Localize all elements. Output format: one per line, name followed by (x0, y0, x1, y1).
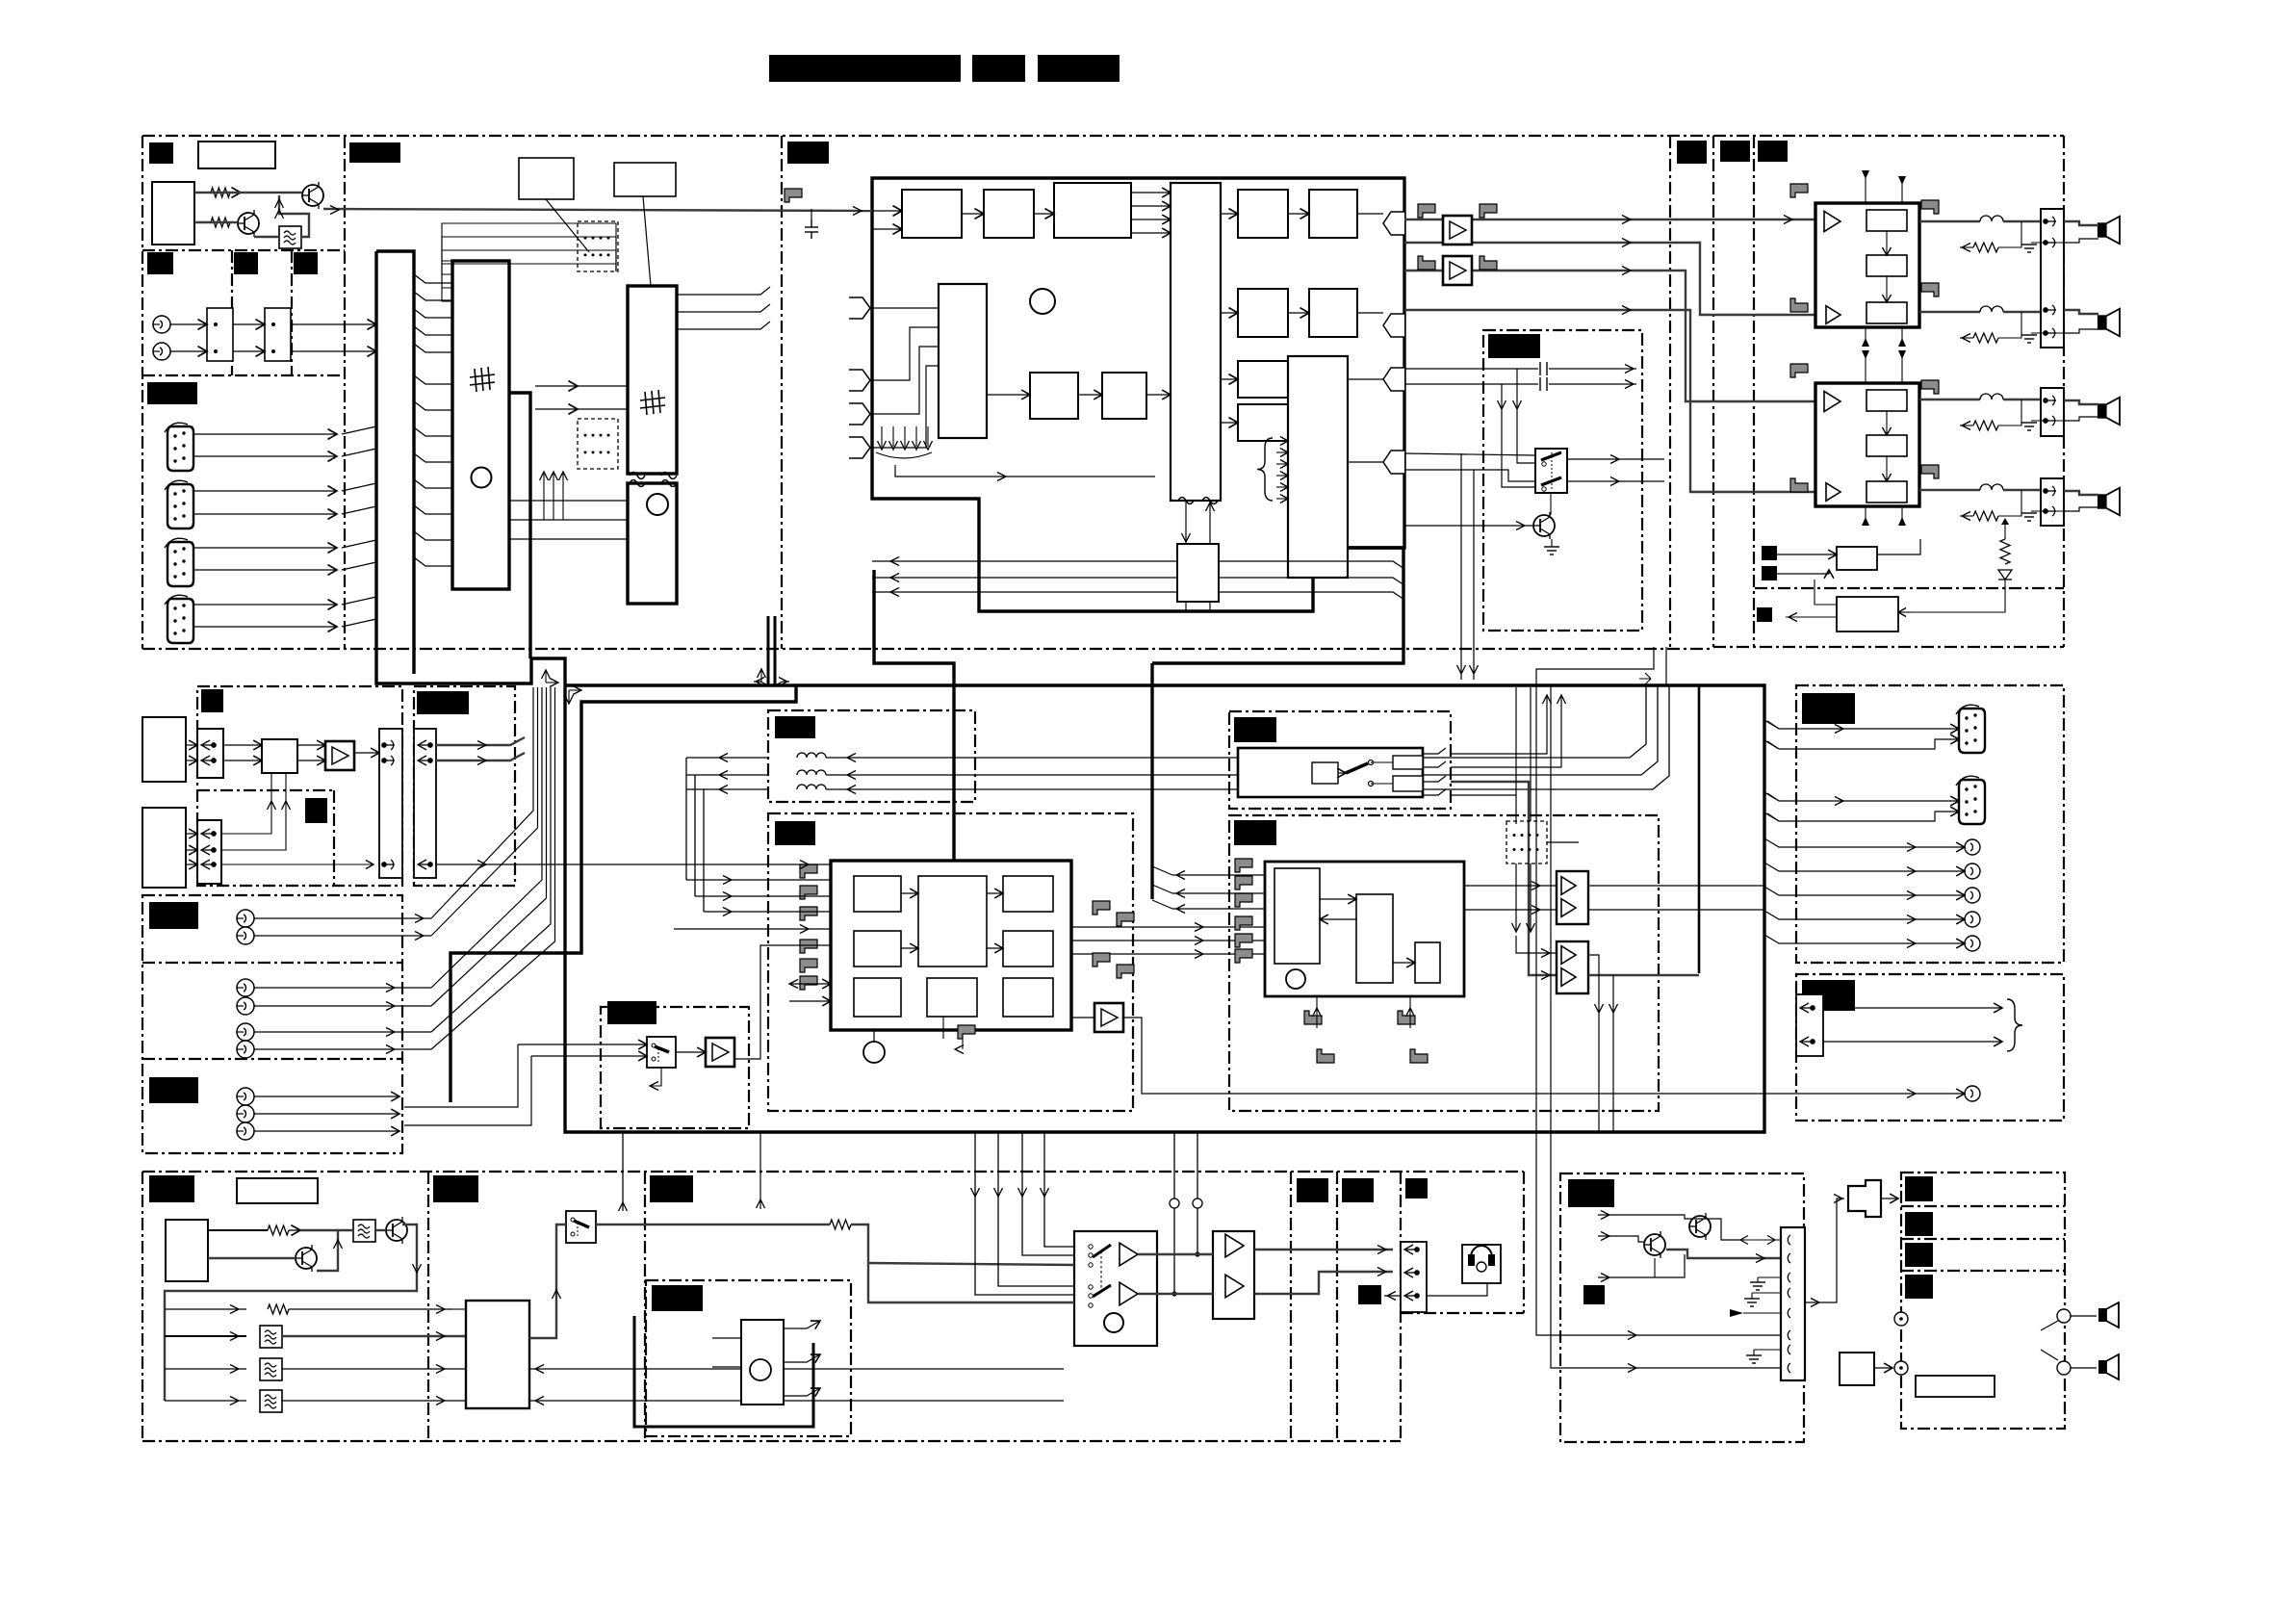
sys conn circle (1965, 1086, 1980, 1101)
FM IF IC block (628, 286, 677, 474)
digital box lower blocks (1030, 373, 1078, 419)
section box: power supply B (bottom mid) (1560, 1173, 1804, 1442)
muting switch outputs (1567, 458, 1664, 460)
wire tuner chain (194, 192, 302, 193)
label: mid-left 2 (417, 691, 469, 714)
label: tuner board (149, 142, 173, 164)
section border: top band outer (142, 135, 2064, 137)
res psu (268, 1225, 289, 1235)
out blocks row1 (1238, 190, 1288, 238)
wires row3/4 to tall (1287, 378, 1289, 380)
headphone feed pair down (1588, 955, 1599, 1132)
vol out wires (1071, 926, 1265, 928)
sys control block (466, 1301, 529, 1408)
selector IC inner blocks (1274, 868, 1320, 964)
MPX feed thick pair (768, 616, 775, 685)
tuner block (152, 182, 194, 245)
conn pins A (197, 729, 223, 778)
wires IC3 left entries (535, 385, 578, 387)
up arrows to dip box (543, 474, 545, 520)
pins A symbols (201, 740, 216, 750)
label: bottom mid (650, 1175, 693, 1202)
section box: record select lower (1229, 815, 1659, 1111)
amp1 to buffer (1138, 1253, 1213, 1255)
block row1 b (984, 190, 1034, 238)
xtal ref box 1 (519, 158, 574, 199)
label: mid-left 3 (305, 798, 327, 823)
sys conn wires (1823, 1007, 2002, 1009)
amp out to speakers (1919, 220, 1980, 222)
amp2 to buffer (1138, 1293, 1213, 1295)
section box: muting/source select (1483, 330, 1642, 631)
label: input board (147, 382, 197, 404)
down arrow cluster under mcu (881, 426, 883, 447)
AC wires (1881, 1198, 1898, 1199)
wire (230, 192, 241, 193)
label: ant 1 (147, 252, 173, 274)
phono input circles (237, 910, 254, 927)
psu B solid arrow (1730, 1309, 1743, 1317)
AC speakers (2098, 1302, 2119, 1328)
wires serial across (872, 560, 1177, 562)
record select outputs (1423, 748, 1446, 754)
label: muting box (1488, 334, 1540, 358)
muting transistor (1533, 512, 1555, 539)
hp main feeds (868, 1263, 1074, 1265)
serial interface block (1177, 544, 1219, 602)
label: rec out (1802, 693, 1855, 724)
label: mic label (652, 1285, 703, 1311)
balun block 1 (207, 308, 233, 361)
hp buffer box (1213, 1231, 1254, 1319)
power amp hybrid 2 (1815, 383, 1919, 506)
wires psu (300, 1229, 353, 1231)
hp amps (1120, 1243, 1138, 1266)
wire row1 (872, 210, 902, 212)
AC trans block (1840, 1353, 1874, 1385)
buffer outputs right (1588, 885, 1764, 887)
brace and arrows into tall block (1257, 438, 1273, 501)
mcu block left (939, 284, 987, 438)
psu B lines from power section (1536, 647, 1781, 1335)
label: phono 1 (149, 902, 198, 929)
dip dashed box 2 (578, 419, 618, 469)
mid blocks row2 (1238, 289, 1288, 337)
wires bus top loops (442, 223, 578, 261)
hp switches (1093, 1245, 1111, 1297)
out chevron row2 (1383, 314, 1404, 337)
DIN pins B tall (379, 729, 402, 878)
headphone select box (1074, 1231, 1157, 1346)
section box: system connector (lower right mid) (1796, 974, 2064, 1121)
serial down stubs (1185, 602, 1187, 611)
psu B transistors (1644, 1231, 1665, 1258)
gray flags right of vol IC (1093, 901, 1110, 915)
wires tape row (186, 744, 197, 746)
label: phono 2 (149, 1077, 198, 1103)
rear connector 4 (165, 595, 193, 643)
antenna input jack 1 (153, 316, 170, 333)
headphone icon (1462, 1245, 1501, 1283)
label: record select lower (1234, 820, 1276, 845)
AC plug (1848, 1180, 1881, 1217)
protection relay block (1837, 597, 1898, 632)
amp input buffer 2 (1443, 256, 1472, 285)
label: bottom mid-left (433, 1175, 478, 1202)
wire connector pair (193, 604, 337, 606)
tape loop bundle from dolby to left (686, 757, 768, 759)
power rails arrows (1865, 170, 1866, 203)
long ctrl wire (895, 465, 1155, 477)
out chevron row3 (1383, 368, 1404, 391)
pins B symbols (382, 740, 395, 750)
pre-out feed jogs (1764, 838, 1796, 847)
FM MPX circle (647, 494, 668, 515)
speaker-B tap verticals (1173, 1132, 1175, 1294)
label: psu B label (1568, 1179, 1614, 1207)
label: system conn (1802, 980, 1855, 1011)
psu rows (268, 1304, 289, 1314)
section box: tape monitor switch (601, 1007, 749, 1128)
amp M1 (325, 741, 354, 770)
section border: headphone jack sub-box (1400, 1172, 1402, 1441)
wire switch right (596, 1224, 830, 1225)
label: dolby box (775, 716, 815, 738)
mid blocks row4 (1238, 404, 1288, 441)
hp return wire (1427, 1283, 1487, 1296)
label: tuner ref box (198, 142, 275, 168)
speakers right (2098, 217, 2120, 245)
section box: mic amp (646, 1280, 851, 1436)
tape rec block 1 (142, 717, 186, 782)
dip dashed box 1 (578, 221, 618, 271)
wires serial up (1185, 501, 1187, 544)
selector IC left flags (1235, 859, 1252, 872)
balun pins (214, 322, 275, 353)
section border: power amp right edge (2063, 136, 2065, 647)
psu B header out to plug (1805, 1199, 1844, 1302)
speaker wires (2064, 221, 2098, 225)
rear connector 1 (165, 423, 193, 471)
tape sw gnd arrow (652, 1068, 661, 1086)
wires line-in diagonal bundle (431, 687, 533, 918)
rec out connector 2 (1956, 776, 1985, 824)
amp section bottom split arrows (1639, 673, 1651, 684)
section border: bottom dividers (427, 1172, 429, 1441)
label: ant 2 (234, 252, 258, 274)
transistor Q11 (296, 1245, 317, 1272)
label: mid-left 1 (201, 689, 223, 712)
gray flags left of vol IC (800, 864, 817, 878)
record switch block (1238, 748, 1423, 797)
tall input selector bus (376, 251, 531, 683)
capacitor to gnd (805, 219, 818, 239)
selector IC outputs to buffers (1464, 885, 1557, 887)
selector IC tally mark (470, 367, 495, 392)
digital board thick outline (872, 178, 1404, 611)
vol blocks grid r1 (854, 876, 901, 912)
chevron merges into rec section (1779, 728, 1796, 730)
label: front board (349, 142, 400, 163)
balun block 2 (265, 308, 291, 361)
out chevron row1 (1383, 212, 1404, 235)
AC ref rect (1916, 1376, 1995, 1397)
wires DIN out right (436, 737, 525, 745)
bidir wire (789, 983, 831, 985)
wires into tape monitor (518, 1044, 647, 1045)
vol blocks grid r3 (854, 978, 901, 1017)
section border: phono dividers (142, 962, 402, 964)
title bar 2 (972, 55, 1025, 82)
DSP right tall block (1288, 356, 1348, 578)
vol blocks grid r2 (854, 931, 901, 967)
thick leg from digital box to main box (874, 570, 954, 864)
label: bottom left (149, 1175, 194, 1202)
transistor Q10 (386, 1217, 407, 1244)
main out chevrons and lines to amps (1404, 219, 1815, 220)
hp circle (1104, 1313, 1123, 1332)
record switch inner (1312, 762, 1338, 784)
label: tape monitor (607, 1001, 656, 1024)
IC right-edge feed (510, 393, 530, 658)
wire connector pair (193, 490, 337, 492)
section border: FM/main divider (781, 136, 783, 649)
psu B wires (1598, 1215, 1712, 1219)
gray flag on fm line (785, 189, 802, 202)
rec out wires (1796, 728, 1959, 730)
power amp hybrid 1 (1815, 203, 1919, 327)
volume/dsp IC thick block (831, 861, 1071, 1030)
input chevrons into digital box (849, 297, 870, 319)
section box: AC power (bottom right) (1901, 1173, 2065, 1429)
psu B gnds (1750, 1282, 1765, 1290)
selector IC block (452, 261, 509, 589)
mcu circle (1030, 289, 1055, 314)
tape rec block 2 (142, 808, 186, 888)
out buffer box 2 (1557, 941, 1588, 993)
label: headphone small (1358, 1285, 1381, 1304)
resistor vert + diode (2000, 539, 2010, 564)
process square (262, 739, 297, 773)
wires row1c to DSP (1131, 192, 1171, 193)
vol arrows (901, 892, 918, 894)
resistor R2 (211, 218, 230, 227)
vol circle (863, 1042, 885, 1063)
psu B line down (759, 1132, 761, 1209)
selector IC gray flags bottom (1304, 1011, 1322, 1024)
section box: bottom band outer (142, 1171, 1524, 1173)
DIN pins C tall (414, 729, 436, 878)
section box: record select upper (1229, 711, 1451, 809)
label: ant 3 (294, 252, 318, 274)
muting port2 lines (1404, 453, 1535, 455)
section border: AC power dividers (1901, 1205, 2065, 1207)
label: headphone col labels (1297, 1178, 1328, 1202)
amp after vol (1094, 1003, 1123, 1032)
power switch (566, 1211, 596, 1243)
bus to IC stub wires (414, 274, 452, 283)
mic thick L (634, 1316, 813, 1427)
relay pass wires (1515, 864, 1517, 930)
AC speaker levers (2041, 1321, 2058, 1330)
muting line 2 with cap (1404, 383, 1538, 385)
transistor Q1 (238, 210, 259, 237)
tape monitor amp (706, 1038, 734, 1067)
label: psu B small (1583, 1285, 1605, 1304)
hp line circles (1170, 1199, 1202, 1208)
section box: DSP/volume control (768, 813, 1133, 1111)
section box: dolby NR (768, 710, 975, 802)
wire switch up to main board (622, 1132, 624, 1211)
section box: phono inputs (142, 895, 402, 1153)
wire long from amp buffer down (1142, 1030, 1627, 1094)
xtal ref box 2 (614, 163, 676, 196)
dolby inductors (797, 753, 826, 758)
muting gnd (1544, 547, 1559, 554)
speaker relay dotted box (1506, 821, 1547, 864)
out buffer box 1 (1557, 871, 1588, 924)
filter psu (353, 1220, 375, 1242)
feedback resistors (1973, 243, 1998, 252)
wire ref to IC (546, 199, 589, 252)
AC node circles (1894, 1309, 2071, 1375)
input wires to vol IC (768, 879, 831, 881)
IC break squiggles (630, 473, 645, 479)
sys conn block (1796, 994, 1823, 1056)
FM IF IC tally (640, 390, 665, 415)
rec out jacks circles (1965, 839, 1980, 855)
gray flags near buffers (1418, 204, 1435, 218)
selector IC monitor out to digital (1172, 874, 1265, 876)
switch riser (529, 1224, 566, 1338)
gray flags at power amps (1790, 184, 1808, 197)
inner board thick outline (450, 685, 796, 1102)
title bar 1 (769, 55, 961, 82)
wire FM out (323, 209, 872, 211)
filter FL1 (279, 226, 301, 248)
section box: rec out jacks (1796, 685, 2064, 963)
section box: tape/aux input (mid-left) (197, 686, 402, 886)
section border: power amp section left dividers (1669, 136, 1671, 647)
wire into ADC 2nd (872, 228, 902, 230)
section border: antenna input sub-dividers (231, 250, 233, 375)
label: power labels x3 (1677, 141, 1707, 164)
buffer outs to jack (1254, 1249, 1393, 1250)
muting taps down (1517, 369, 1535, 463)
block row1 c (1054, 183, 1131, 238)
wire from tape sw to vol (733, 945, 831, 1059)
muting line 1 with cap (1404, 368, 1538, 370)
rec out connector 1 (1956, 705, 1985, 753)
FM MPX IC block (628, 483, 677, 604)
label: AC labels x4 (1905, 1176, 1933, 1201)
antenna input jack 2 (153, 343, 170, 360)
transistor Q2 (302, 182, 323, 209)
wire ant (170, 323, 207, 325)
amp input buffer 1 (1443, 216, 1472, 245)
mid blocks row3 (1238, 361, 1288, 398)
psu B header (1781, 1227, 1805, 1380)
out chevron row4 (1383, 451, 1404, 474)
DSP core tall block (1171, 183, 1221, 501)
bus lines into hp select (975, 1132, 1074, 1295)
wire from protection left (1815, 580, 1837, 605)
muting verticals to relay (1460, 453, 1462, 680)
psu out down (165, 1224, 417, 1401)
wires IC3 top to right (677, 287, 770, 295)
mic out wires (784, 1321, 820, 1328)
psu B bidir (1740, 1236, 1775, 1245)
protect block (1837, 547, 1877, 570)
section border: protector sub-box (1755, 587, 2064, 589)
wire connector pair (193, 547, 337, 549)
selector IC circle (472, 468, 492, 488)
terminal pins (2044, 217, 2056, 226)
muting switch box (1535, 449, 1567, 493)
label: protector small squares (1762, 546, 1777, 560)
label: bottom ref box (237, 1178, 318, 1203)
label: main board (787, 142, 829, 164)
tape monitor switch (647, 1037, 676, 1068)
mic circle (750, 1359, 771, 1380)
psu block (166, 1220, 208, 1281)
ADC block row1 (902, 190, 962, 238)
wires chevron to mcu (870, 307, 939, 309)
process risers (221, 773, 271, 834)
label: dsp box (775, 821, 815, 845)
speaker terminal blocks (2041, 209, 2064, 348)
section border: mid-left sub-divider (197, 789, 334, 791)
distribution arrows at left step (546, 682, 556, 683)
resistor R1 (211, 188, 230, 197)
bundle arrows into mixer area (686, 879, 768, 881)
record selector IC (1265, 862, 1464, 996)
main board thick outline (531, 658, 1764, 1132)
mic block (741, 1320, 784, 1405)
section box: DIN connector (mid-left B) (414, 686, 515, 886)
section border: tuner sub-box (142, 249, 345, 251)
rec feed jogs off right edge (1764, 720, 1779, 729)
rear connector 2 (165, 480, 193, 528)
rear connector 3 (165, 538, 193, 586)
title bar 3 (1038, 55, 1120, 82)
wire connector pair (193, 433, 337, 435)
gray flag below vol (958, 1025, 975, 1039)
label: record select upper (1234, 717, 1276, 742)
hp jack pins (1401, 1242, 1427, 1312)
distribution arrows at MPX feed (754, 682, 768, 685)
lower conn pins (197, 820, 221, 884)
wire across mid (221, 864, 373, 865)
wires into sys block right (529, 1368, 1064, 1370)
mic in wires (712, 1337, 741, 1339)
